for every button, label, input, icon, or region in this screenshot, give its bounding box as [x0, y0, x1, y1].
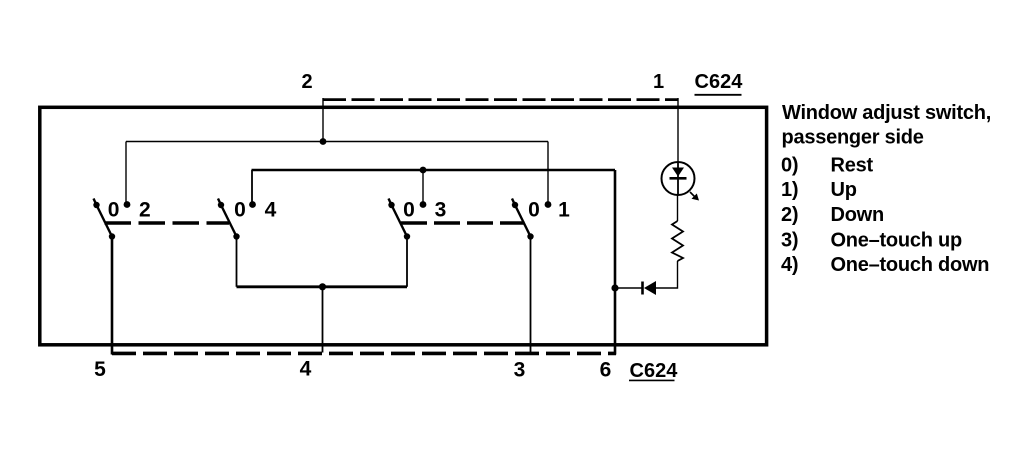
junction pin 4 tap	[319, 283, 326, 290]
wire diode to pin6 bus	[615, 287, 642, 289]
svg-text:4: 4	[265, 199, 277, 222]
svg-text:Window adjust switch,: Window adjust switch,	[782, 102, 991, 124]
annotation: component description text	[781, 102, 991, 276]
svg-text:Up: Up	[831, 179, 857, 201]
wire A right drop to contact 1	[547, 142, 549, 205]
wire pin 2 drop	[322, 98, 324, 142]
mechanical link S1-S2 (dashed)	[105, 221, 230, 224]
switch assembly component box	[40, 107, 767, 344]
wire A left drop to contact 2	[125, 142, 127, 205]
wire S3 pivot down	[406, 237, 408, 287]
svg-text:0: 0	[403, 199, 415, 222]
wire S1 pivot to pin 5	[111, 237, 114, 355]
svg-text:passenger side: passenger side	[782, 126, 924, 148]
wire A horizontal (pin2 net)	[126, 141, 548, 143]
svg-text:2): 2)	[781, 204, 798, 226]
svg-text:One–touch up: One–touch up	[831, 229, 962, 251]
wire drop B to contact 4	[251, 170, 253, 205]
svg-text:C624: C624	[630, 360, 679, 382]
svg-text:4: 4	[300, 358, 312, 381]
resistor R1	[672, 221, 683, 261]
svg-text:3: 3	[514, 359, 526, 382]
junction wire B / contact 3 drop	[420, 167, 427, 174]
connector C624 bottom dashed housing	[112, 352, 616, 356]
wire S2 pivot down	[236, 237, 238, 287]
svg-text:6: 6	[600, 359, 612, 382]
svg-text:1: 1	[653, 71, 664, 93]
switch S2 (0/4)	[218, 199, 256, 240]
switch S3 (0/3)	[388, 199, 426, 240]
svg-text:3: 3	[435, 199, 447, 222]
svg-text:0: 0	[108, 199, 120, 222]
connector C624 bottom designation label	[629, 360, 678, 382]
svg-text:0: 0	[234, 199, 246, 222]
mechanical link S3-S4 (dashed)	[401, 221, 525, 224]
svg-text:0: 0	[528, 199, 540, 222]
wire LED to resistor	[677, 196, 679, 222]
svg-text:One–touch down: One–touch down	[831, 254, 990, 276]
svg-text:Rest: Rest	[831, 155, 874, 177]
svg-text:2: 2	[301, 71, 312, 93]
svg-text:2: 2	[139, 199, 151, 222]
svg-text:4): 4)	[781, 254, 798, 276]
svg-text:0): 0)	[781, 155, 798, 177]
svg-text:5: 5	[94, 358, 106, 381]
LED DS1	[662, 162, 700, 201]
wire drop B to contact 3	[422, 170, 424, 205]
wire pin 4 drop	[322, 287, 324, 353]
bus wire B horizontal (pin6 net, thick)	[252, 169, 616, 172]
svg-text:C624: C624	[695, 71, 744, 93]
wire pin 1 drop to LED	[677, 98, 679, 163]
wire S4 pivot to pin 3	[530, 237, 532, 353]
diode D1	[643, 281, 657, 295]
svg-text:1: 1	[558, 199, 570, 222]
wire resistor to diode branch	[656, 261, 678, 288]
svg-text:3): 3)	[781, 229, 798, 251]
junction pin2 / wire A	[320, 138, 327, 145]
pin 6 bus vertical (thick)	[614, 170, 617, 355]
connector C624 top dashed housing	[323, 98, 678, 101]
svg-text:1): 1)	[781, 179, 798, 201]
switch S1 (0/2)	[93, 199, 130, 240]
switch S4 (0/1)	[512, 199, 552, 240]
connector C624 top designation label	[695, 71, 744, 95]
junction diode / pin 6 bus	[611, 284, 618, 291]
wire S2-S3 pivot bus (pin4 net)	[237, 285, 408, 288]
svg-text:Down: Down	[831, 204, 884, 226]
